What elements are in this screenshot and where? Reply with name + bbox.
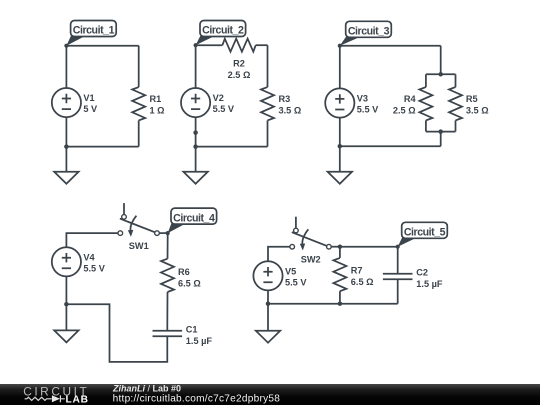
svg-text:SW2: SW2	[301, 255, 321, 265]
wire c3 right return down	[440, 132, 442, 147]
svg-text:1.5 µF: 1.5 µF	[416, 279, 443, 289]
svg-text:SW1: SW1	[129, 241, 149, 251]
wire c1 top	[66, 45, 138, 47]
svg-text:5.5 V: 5.5 V	[213, 104, 235, 114]
wire c4 V4 top lead	[66, 233, 118, 247]
switch SW1 (SPST, open)	[120, 203, 155, 232]
wire R4 top stub	[425, 74, 427, 87]
junction node parallel top	[438, 72, 443, 77]
svg-text:http://circuitlab.com/c7c7e2dp: http://circuitlab.com/c7c7e2dpbry58	[113, 394, 281, 405]
capacitor C1	[153, 331, 183, 336]
svg-text:V4: V4	[83, 252, 95, 262]
capacitor C2	[383, 274, 413, 279]
svg-text:R6: R6	[178, 267, 190, 277]
wire R5 bottom stub	[455, 120, 457, 131]
node Circuit_3 label callout	[340, 37, 361, 46]
svg-text:1 Ω: 1 Ω	[150, 106, 165, 116]
junction node c4 ground	[64, 302, 69, 307]
node Circuit_1 label callout	[66, 36, 85, 46]
junction node c5 ground	[266, 301, 271, 306]
wire c3 parallel top bar	[426, 73, 456, 75]
svg-text:V5: V5	[285, 266, 296, 276]
junction node R7 bottom	[338, 301, 343, 306]
svg-text:R4: R4	[404, 94, 417, 104]
wire c2 left lower (V2 bottom lead)	[195, 117, 197, 146]
wire c3 top	[340, 45, 441, 47]
wire c1 ground stem	[65, 147, 67, 172]
svg-text:V2: V2	[213, 93, 224, 103]
svg-text:ZihanLi / Lab #0: ZihanLi / Lab #0	[112, 383, 181, 393]
switch SW2 (SPST, open)	[292, 217, 327, 246]
wire c5 C2 top lead	[397, 247, 399, 274]
wire c1 right upper (R1 top lead)	[138, 46, 140, 87]
ground (circuit 3)	[328, 172, 352, 184]
svg-text:R1: R1	[150, 94, 162, 104]
wire c2 top right (R2 to corner)	[256, 44, 268, 46]
node Circuit_5 label callout	[398, 238, 417, 247]
wire c3 left upper (V3 top lead)	[339, 46, 341, 89]
svg-text:C2: C2	[416, 267, 428, 277]
junction node c1 ground	[64, 144, 69, 149]
ground (circuit 4)	[54, 330, 78, 342]
wire c1 bottom	[66, 146, 138, 148]
svg-text:Circuit_1: Circuit_1	[73, 25, 115, 37]
wire c4 pole to node	[159, 232, 167, 234]
svg-text:5.5 V: 5.5 V	[285, 277, 307, 287]
ground (circuit 1)	[54, 172, 78, 184]
wire c3 parallel bottom bar	[426, 131, 456, 133]
svg-text:5 V: 5 V	[83, 104, 98, 114]
svg-text:V1: V1	[83, 93, 94, 103]
wire c1 left upper (V1 top lead)	[65, 46, 67, 88]
svg-text:2.5 Ω: 2.5 Ω	[228, 70, 251, 80]
wire R4 bottom stub	[425, 120, 427, 131]
wire c1 left lower (V1 bottom lead)	[65, 117, 67, 146]
svg-text:2.5 Ω: 2.5 Ω	[393, 105, 416, 115]
wire c5 V5 top lead	[268, 247, 290, 262]
svg-text:R3: R3	[279, 94, 291, 104]
svg-text:LAB: LAB	[66, 395, 89, 406]
svg-text:6.5 Ω: 6.5 Ω	[178, 279, 201, 289]
CircuitLab logo resistor-diode glyph	[25, 395, 65, 402]
resistor R7	[333, 258, 346, 291]
wire c5 pole to node	[331, 246, 340, 248]
svg-text:3.5 Ω: 3.5 Ω	[466, 105, 489, 115]
svg-text:1.5 µF: 1.5 µF	[186, 336, 213, 346]
svg-text:R5: R5	[466, 94, 478, 104]
svg-text:Circuit_2: Circuit_2	[202, 25, 244, 37]
wire c5 R7 bottom lead	[339, 291, 341, 304]
wire c4 C1 bottom return	[66, 304, 167, 362]
wire c5 bottom	[268, 303, 398, 305]
wire c2 left upper (V2 top lead)	[195, 45, 197, 88]
resistor R4	[419, 87, 432, 120]
wire c3 ground stem	[339, 146, 341, 172]
ground (circuit 2)	[183, 172, 207, 184]
resistor R2	[222, 39, 255, 52]
wire c2 top left (to R2)	[196, 44, 223, 46]
wire c5 R7 top lead	[339, 247, 341, 258]
svg-text:3.5 Ω: 3.5 Ω	[279, 106, 302, 116]
node Circuit_4 label callout	[168, 223, 186, 233]
svg-text:5.5 V: 5.5 V	[83, 263, 105, 273]
voltage source V1 (5 V)	[52, 88, 81, 117]
svg-text:R2: R2	[233, 58, 245, 68]
svg-text:Circuit_3: Circuit_3	[348, 26, 390, 38]
resistor R5	[449, 87, 462, 120]
wire c5 C2 bottom lead	[397, 279, 399, 304]
wire c3 left lower (V3 bottom lead)	[339, 118, 341, 147]
wire c2 bottom	[196, 146, 268, 148]
junction node V2 bottom	[193, 130, 198, 135]
wire c3 bottom	[340, 145, 441, 147]
wire c1 right lower (R1 bottom lead)	[138, 120, 140, 146]
resistor R6	[161, 259, 174, 292]
wire c5 V5 bottom lead	[267, 290, 269, 303]
svg-text:6.5 Ω: 6.5 Ω	[351, 277, 374, 287]
voltage source V4 (5.5 V)	[52, 247, 81, 276]
wire c3 right feed down	[440, 46, 442, 75]
resistor R1	[132, 87, 145, 120]
wire c4 node down (R6 top lead)	[167, 233, 169, 259]
wire c4 R6 to C1	[166, 292, 168, 331]
junction node c2 ground	[193, 144, 198, 149]
junction node R7 top	[338, 244, 343, 249]
voltage source V3 (5.5 V)	[325, 88, 354, 117]
svg-text:V3: V3	[357, 94, 368, 104]
wire c4 ground stem	[65, 304, 67, 330]
svg-text:Circuit_5: Circuit_5	[404, 227, 446, 239]
resistor R3	[261, 87, 274, 120]
wire c5 top to C2	[340, 246, 398, 248]
junction node c3 ground	[338, 144, 343, 149]
wire c5 ground stem	[267, 304, 269, 331]
junction node parallel bottom	[438, 129, 443, 134]
ground (circuit 5)	[256, 331, 280, 343]
wire c2 right lower (R3 bottom lead)	[267, 120, 269, 146]
wire c2 right upper (R3 top lead)	[267, 45, 269, 87]
svg-text:5.5 V: 5.5 V	[357, 105, 379, 115]
node Circuit_2 label callout	[196, 36, 215, 45]
voltage source V5 (5.5 V)	[253, 261, 282, 290]
wire c4 V4 bottom lead	[65, 276, 67, 304]
svg-text:Circuit_4: Circuit_4	[173, 212, 215, 224]
wire c2 ground stem	[195, 147, 197, 172]
voltage source V2 (5.5 V)	[181, 88, 210, 117]
svg-text:R7: R7	[351, 266, 363, 276]
wire R5 top stub	[455, 74, 457, 87]
svg-text:C1: C1	[186, 324, 198, 334]
